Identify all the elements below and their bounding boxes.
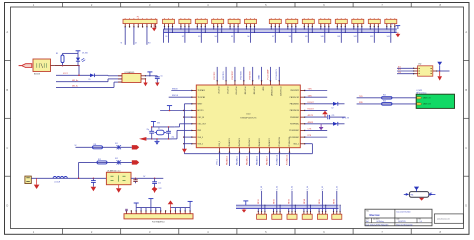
svg-text:X1: X1 bbox=[158, 128, 160, 130]
connector P10 (3-pin servo header) bbox=[302, 18, 314, 27]
power port (blue bar) at bus right end bbox=[391, 24, 400, 29]
svg-text:U2 MAX485: U2 MAX485 bbox=[125, 71, 135, 74]
svg-text:A12: A12 bbox=[398, 66, 401, 69]
svg-text:R46: R46 bbox=[383, 101, 386, 103]
svg-text:PB14/MISO: PB14/MISO bbox=[290, 104, 300, 106]
svg-text:A4: A4 bbox=[366, 220, 368, 223]
svg-text:VSS_3: VSS_3 bbox=[198, 137, 203, 139]
TVS diode on RC line 1 bbox=[115, 143, 121, 150]
MCU left pin 9 stub bbox=[191, 143, 203, 145]
svg-text:PB15/MOSI: PB15/MOSI bbox=[290, 110, 300, 112]
connector K4 (bottom 3-pin) bbox=[302, 211, 312, 220]
wire K5 pin3 to rail bbox=[325, 205, 326, 212]
MCU right pin 7 stub bbox=[289, 130, 305, 132]
svg-text:FB1: FB1 bbox=[411, 194, 414, 196]
power flag (red arrow) floating above P16 bbox=[152, 186, 163, 192]
wire P13 pin1 to VCC rail bbox=[353, 27, 354, 30]
wire P12 pin3 to GND rail bbox=[345, 27, 346, 33]
svg-text:R12: R12 bbox=[98, 159, 101, 161]
wire P3 pin1 to VCC rail bbox=[180, 27, 181, 30]
MCU left pin 3 stub bbox=[191, 103, 203, 105]
isolation transformer T1 bbox=[33, 59, 51, 76]
MCU bottom pin 6 wire and net label bbox=[265, 138, 271, 166]
wire K6 pin3 to rail bbox=[340, 205, 341, 212]
ground arrow (red) at bus right end bbox=[396, 32, 401, 37]
svg-text:RLY1: RLY1 bbox=[258, 199, 260, 204]
svg-text:R2OUT: R2OUT bbox=[308, 109, 315, 111]
wire P2 pin1 to VCC rail bbox=[164, 27, 165, 30]
wire P7 pin3 to GND rail bbox=[254, 27, 255, 33]
connector P2 (3-pin servo header) bbox=[163, 18, 175, 27]
capacitor C5 with ground bbox=[150, 76, 163, 87]
connector P15 (3-pin servo header) bbox=[385, 18, 397, 27]
wire K3 signal with net label RLY3 bbox=[289, 186, 294, 211]
svg-text:Document Number: Document Number bbox=[397, 210, 412, 213]
port arrow (red) RC line 2 bbox=[132, 160, 139, 164]
svg-text:TDI/PA15: TDI/PA15 bbox=[198, 89, 205, 92]
svg-text:S14: S14 bbox=[387, 36, 390, 38]
VCC arrow (red) at P16 bbox=[168, 200, 174, 211]
connector P6 (3-pin servo header) bbox=[228, 18, 240, 27]
wire MCU right pin8 with net label bbox=[305, 135, 327, 137]
svg-text:PE6/TIM9: PE6/TIM9 bbox=[252, 87, 254, 95]
wire net tie along MCU bottom bbox=[184, 144, 312, 154]
svg-text:C21: C21 bbox=[332, 115, 335, 117]
MCU top pin 6 wire and net label bbox=[257, 67, 264, 92]
svg-text:PE6/TIM9: PE6/TIM9 bbox=[250, 71, 252, 79]
wire K3 pin1 to rail bbox=[288, 208, 290, 211]
net label MP3_TX bbox=[342, 118, 350, 120]
svg-text:VI: VI bbox=[121, 43, 123, 45]
wire K3 pin3 to rail bbox=[295, 205, 296, 212]
svg-text:C12: C12 bbox=[158, 182, 161, 184]
svg-text:VSS_2: VSS_2 bbox=[198, 143, 203, 145]
svg-text:7: 7 bbox=[381, 230, 383, 234]
wire U2 VCC to power port bbox=[146, 72, 153, 77]
wire P1 pin1 with net label bbox=[121, 27, 126, 45]
MCU left pin 4 stub bbox=[191, 110, 203, 112]
MCU U1 designator and value text bbox=[240, 114, 257, 120]
svg-text:D2: D2 bbox=[332, 108, 334, 110]
svg-text:RLY4: RLY4 bbox=[304, 199, 306, 204]
svg-text:D11: D11 bbox=[115, 143, 118, 145]
svg-text:S9: S9 bbox=[305, 36, 307, 38]
svg-text:PE5/TIM9: PE5/TIM9 bbox=[244, 87, 246, 95]
svg-text:6: 6 bbox=[323, 230, 325, 234]
ground arrow below U2 pin bbox=[143, 79, 147, 86]
svg-text:C: C bbox=[465, 146, 467, 150]
wire P10 pin1 to VCC rail bbox=[304, 27, 305, 30]
wire P11 pin1 to VCC rail bbox=[320, 27, 321, 30]
wire P4 pin1 to VCC rail bbox=[197, 27, 198, 30]
wire RS485 line A with diode D5 bbox=[56, 73, 122, 81]
svg-text:U_K2: U_K2 bbox=[276, 186, 278, 190]
wire P1 pin3 with net label bbox=[134, 27, 137, 45]
filter FB1 (rounded box) bbox=[409, 192, 428, 198]
wire MCU right pin6 with diode D3 bbox=[305, 122, 345, 126]
svg-text:PA3/ADC3: PA3/ADC3 bbox=[228, 138, 231, 146]
svg-text:D: D bbox=[6, 204, 8, 208]
crystal circuit power port (blue bar) bbox=[151, 122, 160, 127]
svg-text:VCC2: VCC2 bbox=[63, 73, 68, 75]
svg-text:RLY6: RLY6 bbox=[333, 199, 335, 204]
svg-text:5V: 5V bbox=[143, 176, 146, 178]
wire K1 signal with net label RLY1 bbox=[258, 186, 263, 211]
svg-text:PE2/TRC: PE2/TRC bbox=[214, 71, 216, 79]
connector P13 (3-pin servo header) bbox=[352, 18, 364, 27]
svg-text:04 Relay: 04 Relay bbox=[377, 221, 384, 223]
ground arrow below U3 bbox=[116, 185, 122, 193]
svg-text:VSS_5: VSS_5 bbox=[219, 141, 221, 146]
svg-text:22p: 22p bbox=[147, 129, 150, 131]
MCU right pin 4 stub bbox=[290, 110, 306, 112]
svg-text:U3 AMS1117-5.0: U3 AMS1117-5.0 bbox=[107, 169, 120, 172]
connector K2 (bottom 3-pin) bbox=[272, 211, 282, 220]
wire P8 pin3 to GND rail bbox=[279, 27, 280, 33]
wire into FB1 left (blue arrow) bbox=[404, 193, 409, 196]
wire K4 pin1 to rail bbox=[303, 208, 305, 211]
svg-text:OSC_OUT: OSC_OUT bbox=[198, 124, 207, 126]
svg-text:D5: D5 bbox=[89, 79, 91, 81]
svg-text:S8: S8 bbox=[289, 36, 291, 38]
connector P11 (3-pin servo header) bbox=[319, 18, 331, 27]
svg-text:PA5/DAC2: PA5/DAC2 bbox=[248, 138, 251, 146]
wire K5 pin1 to rail bbox=[318, 208, 320, 211]
MCU top pin 8 wire and net label bbox=[276, 67, 281, 96]
svg-text:S5: S5 bbox=[231, 36, 233, 38]
svg-text:5V_ISO: 5V_ISO bbox=[82, 52, 89, 54]
MCU left pin 8 stub bbox=[191, 136, 203, 138]
resistor R11 on RC line 1 bbox=[93, 144, 103, 149]
ground (red) below FB1 bbox=[419, 198, 424, 201]
MCU top pin 4 wire and net label bbox=[241, 67, 246, 94]
svg-text:S2: S2 bbox=[182, 36, 184, 38]
wire P1 pin6 with net label bbox=[147, 27, 151, 45]
svg-text:PE4/TRST: PE4/TRST bbox=[235, 87, 237, 96]
wire P5 pin3 to GND rail bbox=[221, 27, 222, 33]
ground arrow (red) below CN2 output bbox=[437, 71, 442, 81]
MCU left pin 7 stub bbox=[191, 130, 201, 132]
wire P14 pin1 to VCC rail bbox=[370, 27, 371, 30]
wire K1 pin3 to rail bbox=[264, 205, 265, 212]
wire K6 pin1 to rail bbox=[333, 208, 335, 211]
power rail bus (bottom pair) bbox=[236, 205, 339, 208]
svg-text:485_B-: 485_B- bbox=[72, 86, 78, 88]
connector P5 (3-pin servo header) bbox=[212, 18, 224, 27]
wire P13 signal with net label S12 bbox=[354, 27, 358, 43]
svg-text:B13: B13 bbox=[398, 69, 401, 71]
wire from RC line 2 down to 5V node bbox=[78, 162, 80, 178]
wire K1 pin1 to rail bbox=[257, 208, 259, 211]
wire RC line 2 bbox=[79, 161, 132, 163]
svg-text:B: B bbox=[6, 88, 8, 92]
svg-text:PC4/ADC14: PC4/ADC14 bbox=[275, 155, 278, 165]
power port arrow (red, below P1) bbox=[152, 24, 157, 32]
wire P2 signal with net label S1 bbox=[165, 27, 168, 43]
connector P8 (3-pin servo header) bbox=[269, 18, 281, 27]
connector P9 (3-pin servo header) bbox=[286, 18, 298, 27]
capacitor C12 with ground bbox=[152, 178, 161, 192]
wire P10 signal with net label S9 bbox=[305, 27, 308, 43]
MCU left pin 1 stub bbox=[191, 89, 205, 92]
svg-text:PA4/DAC1: PA4/DAC1 bbox=[235, 156, 238, 165]
wire MCU right pin4 with net label bbox=[305, 109, 327, 111]
wire top rail to power port 5V_ISO bbox=[63, 51, 89, 55]
svg-text:PB13/SCK2: PB13/SCK2 bbox=[290, 97, 299, 99]
sheet entry UART_TX (yellow arrow) bbox=[417, 97, 432, 100]
wire group P16 right with power bar bbox=[171, 201, 193, 211]
svg-text:VSS_5: VSS_5 bbox=[216, 159, 218, 165]
svg-text:D12: D12 bbox=[115, 158, 118, 160]
wire P4 pin3 to GND rail bbox=[205, 27, 206, 33]
MCU top pin 3 wire and net label bbox=[232, 67, 237, 96]
wire P3 pin3 to GND rail bbox=[188, 27, 189, 33]
svg-text:PA6/ADC6: PA6/ADC6 bbox=[255, 156, 258, 165]
capacitor C10 with ground bbox=[91, 178, 97, 191]
power port (blue bar) at bottom rail left bbox=[243, 201, 248, 205]
MCU U1 body (STM32) bbox=[196, 85, 300, 148]
inductor L1 bbox=[53, 177, 67, 184]
MCU top pin 5 wire and net label bbox=[250, 67, 255, 94]
wire group P16 mid with power bar bbox=[148, 199, 153, 208]
svg-text:PD8/FSMC: PD8/FSMC bbox=[290, 117, 300, 119]
svg-text:SWCLK: SWCLK bbox=[172, 95, 179, 97]
svg-text:S1: S1 bbox=[165, 36, 167, 38]
wire P5 signal with net label S4 bbox=[215, 27, 218, 43]
wire K6 signal with net label RLY6 bbox=[333, 186, 338, 211]
port RS485 (red harness arrow) bbox=[19, 64, 32, 68]
svg-text:PA5/DAC2: PA5/DAC2 bbox=[245, 156, 248, 165]
connector P16 (long header bottom) bbox=[124, 210, 193, 223]
svg-text:T2IN: T2IN bbox=[308, 95, 313, 97]
wire K5 signal with net label RLY5 bbox=[319, 186, 324, 211]
wire T1 output node bbox=[51, 65, 80, 67]
ground arrow (red) at MCU tie-down corner bbox=[182, 149, 187, 153]
svg-text:PA3/ADC3: PA3/ADC3 bbox=[225, 156, 228, 165]
wire U3 output 5V bbox=[131, 176, 163, 179]
wire to sheet symbol with resistor R45 bbox=[357, 95, 417, 100]
svg-text:UART_TX: UART_TX bbox=[423, 97, 432, 100]
svg-text:PD9/FSMC: PD9/FSMC bbox=[290, 124, 300, 126]
wire MCU left pin2 with label bbox=[169, 95, 192, 97]
LED D1 (vertical, light arrows) bbox=[76, 53, 85, 65]
wire MCU left pin9 to tie-down bus with junction bbox=[183, 143, 192, 144]
TVS diode on RC line 2 bbox=[115, 158, 121, 165]
wire crystal to MCU OSC_OUT bbox=[172, 130, 192, 139]
svg-text:RLY5: RLY5 bbox=[319, 199, 321, 204]
svg-text:OSC_IN: OSC_IN bbox=[198, 117, 205, 119]
connector P7 (3-pin servo header) bbox=[245, 18, 257, 27]
svg-text:RXD: RXD bbox=[359, 102, 364, 104]
wire MCU left pin4 with power tap bbox=[160, 106, 192, 112]
wire P6 signal with net label S5 bbox=[231, 27, 234, 43]
svg-text:D: D bbox=[465, 204, 467, 208]
svg-text:S10: S10 bbox=[321, 36, 324, 38]
wire node down to RS485 A line bbox=[78, 66, 80, 76]
svg-text:3V3: 3V3 bbox=[157, 123, 160, 125]
wire P8 signal with net label S7 bbox=[272, 27, 275, 43]
connector P12 (3-pin servo header) bbox=[335, 18, 347, 27]
wire MCU right pin1 with net label bbox=[305, 89, 327, 91]
svg-text:PB12/SPI2: PB12/SPI2 bbox=[290, 90, 299, 92]
svg-text:PC13/TAMP: PC13/TAMP bbox=[270, 87, 273, 97]
svg-text:S7: S7 bbox=[272, 36, 274, 38]
resistor R3 (vertical) bbox=[56, 53, 64, 66]
MCU top pin 2 wire and net label bbox=[223, 67, 228, 95]
svg-text:PA7/ADC7: PA7/ADC7 bbox=[265, 156, 268, 165]
wire P13 pin3 to GND rail bbox=[361, 27, 362, 33]
capacitor (violet) at P16 pin1 bbox=[125, 209, 128, 210]
wire to sheet symbol with resistor R46 bbox=[357, 101, 417, 106]
svg-text:A: A bbox=[6, 30, 8, 34]
connector P1 (long header top-left) bbox=[123, 16, 157, 27]
svg-text:B: B bbox=[465, 88, 467, 92]
power port (blue) above CN2 output bbox=[437, 62, 442, 71]
wire P4 signal with net label S3 bbox=[198, 27, 201, 43]
wire P12 pin1 to VCC rail bbox=[337, 27, 338, 30]
svg-text:5V: 5V bbox=[75, 145, 78, 147]
wire K4 signal with net label RLY4 bbox=[304, 186, 309, 211]
title block side box bbox=[434, 214, 463, 223]
svg-text:P16 HEADER14: P16 HEADER14 bbox=[152, 220, 164, 223]
wire CN2 input A12 bbox=[397, 66, 418, 69]
wire P9 signal with net label S8 bbox=[289, 27, 292, 43]
svg-text:3: 3 bbox=[149, 230, 151, 234]
svg-text:S4: S4 bbox=[215, 36, 217, 38]
svg-text:Title: Title bbox=[366, 209, 369, 212]
port arrow (red) RC line 1 bbox=[132, 145, 139, 149]
svg-text:SWDIO: SWDIO bbox=[172, 88, 178, 90]
svg-text:PC14/OSC3: PC14/OSC3 bbox=[276, 69, 278, 79]
svg-text:8: 8 bbox=[439, 230, 441, 234]
title block texts bbox=[366, 209, 422, 226]
MCU right pin 2 stub bbox=[290, 96, 306, 98]
connector P3 (3-pin servo header) bbox=[179, 18, 191, 27]
title block outline bbox=[365, 209, 432, 226]
MCU bottom pin 5 wire and net label bbox=[255, 138, 261, 166]
wire MCU right pin7 with net label bbox=[305, 129, 327, 131]
crystal Y1 with load capacitors bbox=[147, 126, 175, 139]
wire P6 pin3 to GND rail bbox=[238, 27, 239, 33]
wire P3 signal with net label S2 bbox=[182, 27, 185, 43]
svg-text:PA7/ADC7: PA7/ADC7 bbox=[268, 138, 271, 146]
svg-text:U_K5: U_K5 bbox=[322, 186, 324, 190]
svg-text:L1 10uH: L1 10uH bbox=[54, 182, 61, 184]
wire P15 pin3 to GND rail bbox=[394, 27, 395, 33]
diode D4 (violet) on MCU right pin7 wire bbox=[319, 124, 323, 130]
svg-text:22p: 22p bbox=[172, 137, 175, 139]
svg-text:S13: S13 bbox=[370, 36, 373, 38]
svg-text:C14: C14 bbox=[398, 72, 401, 74]
MCU bottom pin 3 wire and net label bbox=[235, 138, 241, 166]
wire MCU right pin3 with diode D2 bbox=[305, 102, 345, 110]
wire P14 pin3 to GND rail bbox=[378, 27, 379, 33]
svg-text:S6: S6 bbox=[247, 36, 249, 38]
svg-text:12V: 12V bbox=[159, 188, 163, 190]
svg-text:VDD_1: VDD_1 bbox=[293, 143, 299, 145]
wire K2 pin1 to rail bbox=[273, 208, 275, 211]
polarized capacitor C11 bbox=[133, 178, 137, 183]
connector CN2 (right, 4-pin) bbox=[418, 64, 433, 77]
connector K6 (bottom 3-pin) bbox=[332, 211, 342, 220]
svg-text:BOOT0: BOOT0 bbox=[198, 110, 204, 112]
svg-text:T1IN: T1IN bbox=[308, 89, 313, 91]
RS485 transceiver U2 bbox=[118, 71, 146, 83]
svg-text:C5: C5 bbox=[161, 76, 163, 78]
MCU bottom pin 1 wire and net label bbox=[216, 141, 221, 166]
svg-text:PC14/OSC3: PC14/OSC3 bbox=[279, 87, 281, 97]
MCU top pin 1 wire and net label bbox=[214, 67, 219, 95]
svg-text:MP3.SchDoc: MP3.SchDoc bbox=[416, 93, 427, 95]
MCU left pin 5 stub bbox=[191, 116, 205, 118]
wire P9 pin1 to VCC rail bbox=[287, 27, 288, 30]
wire MCU right pin2 with net label bbox=[305, 95, 327, 97]
wire power input main bbox=[31, 178, 106, 180]
svg-text:S3: S3 bbox=[198, 36, 200, 38]
svg-text:U_K1: U_K1 bbox=[261, 186, 263, 190]
svg-text:STM32F103VCT6: STM32F103VCT6 bbox=[240, 117, 257, 119]
svg-text:1.0: 1.0 bbox=[420, 221, 422, 223]
svg-text:DI: DI bbox=[135, 43, 137, 45]
MCU right pin 3 stub bbox=[290, 103, 306, 105]
svg-text:PE5/TIM9: PE5/TIM9 bbox=[241, 71, 243, 79]
wire CN2 input C14 bbox=[397, 72, 418, 74]
svg-text:5: 5 bbox=[265, 230, 267, 234]
wire P12 signal with net label S11 bbox=[337, 27, 341, 43]
power-down port (blue) under crystal bbox=[155, 138, 160, 145]
svg-text:PC4/ADC14: PC4/ADC14 bbox=[278, 137, 281, 147]
svg-text:VBAT: VBAT bbox=[257, 74, 260, 80]
MCU bottom pin 2 wire and net label bbox=[225, 138, 231, 166]
wire out of FB1 right (blue arrow) bbox=[429, 193, 436, 196]
svg-text:RLY3: RLY3 bbox=[289, 199, 291, 204]
MCU bottom pin 8 wire and net label bbox=[285, 137, 291, 166]
MCU left pin 2 stub bbox=[191, 96, 205, 98]
svg-text:485RX: 485RX bbox=[308, 122, 314, 124]
svg-text:S11: S11 bbox=[337, 36, 340, 38]
svg-text:MP3_TX: MP3_TX bbox=[342, 118, 350, 120]
port arrow (red) OSC left bbox=[139, 137, 152, 141]
sheet symbol U_MP3 (green block) bbox=[416, 90, 454, 108]
voltage regulator U3 bbox=[106, 169, 131, 184]
svg-text:U_K6: U_K6 bbox=[336, 186, 338, 190]
MCU right pin 5 stub bbox=[290, 116, 305, 118]
wire P9 pin3 to GND rail bbox=[295, 27, 296, 33]
wire MCU right pin5 with series cap and VCC arrow bbox=[305, 111, 346, 120]
MCU right pin 6 stub bbox=[290, 123, 305, 125]
wire P11 pin3 to GND rail bbox=[328, 27, 329, 33]
wire P7 signal with net label S6 bbox=[247, 27, 250, 43]
svg-text:B0505S: B0505S bbox=[34, 74, 41, 76]
svg-text:R3: R3 bbox=[56, 53, 58, 55]
svg-text:PC13/TAMP: PC13/TAMP bbox=[266, 69, 269, 80]
svg-text:R45: R45 bbox=[383, 95, 386, 97]
svg-text:R1OUT: R1OUT bbox=[308, 102, 315, 104]
connector P4 (3-pin servo header) bbox=[195, 18, 207, 27]
wire K4 pin3 to rail bbox=[310, 205, 311, 212]
wire P15 signal with net label S14 bbox=[387, 27, 391, 43]
svg-text:www.elecrow.com: www.elecrow.com bbox=[437, 218, 450, 220]
wire crystal to MCU OSC_IN bbox=[175, 124, 192, 127]
svg-text:U_K3: U_K3 bbox=[292, 186, 294, 190]
svg-text:PA6/ADC6: PA6/ADC6 bbox=[258, 138, 261, 146]
svg-text:485TX: 485TX bbox=[308, 115, 314, 117]
wire P7 pin1 to VCC rail bbox=[246, 27, 247, 30]
wire P15 pin1 to VCC rail bbox=[386, 27, 387, 30]
wire P11 signal with net label S10 bbox=[321, 27, 325, 43]
MCU right pin 9 stub bbox=[293, 143, 305, 145]
svg-text:PD11/FSMC: PD11/FSMC bbox=[289, 137, 299, 139]
